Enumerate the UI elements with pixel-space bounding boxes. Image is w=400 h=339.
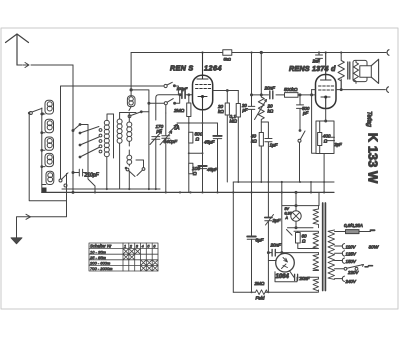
winding primary [328,230,335,279]
tap C125V [335,251,357,257]
PSU ground bus [233,291,317,293]
variable capacitor 540pF [160,113,178,192]
terminal c upper [387,50,389,56]
switch table [89,243,158,271]
wire gramophone line [312,89,386,91]
svg-text:pF: pF [156,128,164,133]
winding W1 [313,206,319,228]
earth plug arrow [26,214,31,219]
wire left feed y86 [61,86,165,179]
resistor 5kOhm in HT bus [223,50,232,62]
wire switch verticals mid [88,125,95,193]
output transformer core [348,62,350,79]
capacitor 1uF [265,139,279,183]
resistor 400 Ohm [318,121,331,154]
switch S6 grid upper [164,82,178,95]
svg-text:200 - 600m: 200 - 600m [89,261,111,266]
wire pot bottom link [261,122,268,138]
wire pot feed from bus [260,53,262,95]
svg-text:125V: 125V [346,252,357,257]
svg-text:Tefag: Tefag [366,111,373,127]
svg-text:5kΩ: 5kΩ [224,57,231,62]
coil L8 [117,113,122,190]
resistor 0.1MOhm [230,91,241,183]
capacitor 20nF psu upper [267,243,318,257]
wire lamp top row [282,182,319,254]
ground [11,238,22,244]
wire rectifier right [268,260,276,262]
tube U2 RENS 1374d [316,75,337,109]
switch S1 top-left [28,108,43,114]
resistor 500kOhm coupling [284,87,298,97]
rotary wafer blob [42,188,47,194]
tap C150V [335,258,357,264]
capacitor 45uF upper [204,123,222,192]
resistor 60 Ohm [294,231,318,248]
wire PSU left drop [232,182,234,292]
svg-text:0,6/0,25A: 0,6/0,25A [344,223,363,228]
svg-text:220V: 220V [347,270,359,275]
resistor 20kOhm screen [217,90,229,182]
speaker frame [353,60,367,81]
resistor 100 Ohm [189,163,201,177]
terminal c lower [387,87,389,93]
grid capacitor 100pF [177,87,188,99]
svg-text:10 - 35m: 10 - 35m [90,249,106,254]
capacitor 20nF coupling [264,86,277,99]
wire anode branch x311 [300,182,311,192]
svg-text:210pF: 210pF [84,173,100,179]
svg-text:45μF: 45μF [207,167,219,172]
svg-text:1: 1 [124,244,126,249]
coil L6 top small [127,53,135,111]
wire coil-bank rail [41,108,43,192]
svg-text:2MΩ: 2MΩ [254,281,265,286]
transformer core [323,203,326,291]
svg-text:0,35: 0,35 [285,212,292,216]
winding W4 [313,277,319,292]
svg-text:K 133 W: K 133 W [366,133,381,184]
switch S3 mid [128,111,149,118]
bus L1 (coil return) [62,188,160,190]
coil L2 [41,119,54,133]
winding W3 [313,253,319,271]
svg-text:30W: 30W [369,245,379,251]
coil L7 tuning tall [104,114,113,189]
capacitor 8uF [247,182,264,292]
tap C110V [335,244,357,250]
svg-text:100pF: 100pF [177,87,188,91]
svg-text:kΩ: kΩ [218,109,224,114]
wire cathode row [177,122,218,124]
svg-text:45μF: 45μF [204,140,216,145]
svg-text:2μF: 2μF [334,142,343,147]
antenna [6,34,29,65]
capacitor 210pF [73,169,100,178]
antenna plug connector [17,63,73,68]
svg-text:Ω: Ω [302,239,306,244]
svg-text:700 - 2000m: 700 - 2000m [90,266,113,271]
svg-text:20nF: 20nF [270,243,283,248]
switch S4 below L10 [125,167,135,189]
svg-text:1264: 1264 [204,64,222,73]
coil L5 [42,171,54,184]
wire grid line [156,95,193,120]
main ground bus [42,191,334,193]
switch S5 contact [136,160,145,176]
capacitor 20pF [241,53,255,183]
svg-text:1064: 1064 [276,274,290,280]
svg-text:kΩ: kΩ [251,139,257,144]
resistor 2MOhm [173,94,191,192]
capacitor 2uF cathode [328,137,343,147]
svg-text:pF: pF [242,108,248,113]
svg-text:pF: pF [302,111,308,116]
wire L6 tap to trimmer line [131,90,149,189]
svg-text:RENS 1374 d: RENS 1374 d [289,64,336,73]
svg-text:Schalter Nr: Schalter Nr [90,244,112,249]
coil L9 [127,113,132,147]
resistor 500 Ohm [189,132,203,144]
capacitor 500pF [297,94,310,130]
rectifier tube 1064 [276,253,295,272]
node TA tap [169,124,180,132]
cathode network box [316,109,334,154]
wire coil top link [120,112,136,114]
capacitor 20nF psu lower [289,271,318,281]
svg-text:2MΩ: 2MΩ [173,108,185,114]
svg-text:240V: 240V [345,279,357,284]
wire speaker top bus [340,79,342,90]
svg-text:1μF: 1μF [270,143,279,148]
wire coil core [113,114,115,158]
svg-text:110V: 110V [346,244,357,249]
coil L3 [41,137,54,151]
wire screen lead [213,90,239,92]
svg-text:2μF: 2μF [272,218,282,223]
coil L4 [41,153,54,167]
svg-text:540pF: 540pF [164,139,179,145]
svg-text:Ω: Ω [196,137,200,143]
svg-text:2nF: 2nF [312,58,321,63]
wire grid coupling row [252,94,285,96]
tap 240V [335,276,357,284]
switch S2 lower-left [59,173,68,187]
coil L1 [41,100,54,115]
wire 500/100 row [189,152,203,154]
svg-text:A: A [285,216,289,220]
tap 220V switch [335,265,373,276]
svg-text:kΩ: kΩ [268,109,274,114]
svg-text:MΩ: MΩ [230,119,238,124]
resistor 2MOhm Feld [254,281,268,301]
PSU bus dots [251,291,270,293]
resistor 40kOhm [251,133,263,183]
wire cathode to bus [323,154,325,193]
wire lamp bottom row [288,221,314,228]
svg-text:20nF: 20nF [299,276,310,281]
wire grid entry + cathode return [298,90,316,154]
svg-text:500kΩ: 500kΩ [284,87,298,92]
svg-text:Feld: Feld [256,296,265,301]
bus junction dots [94,181,325,194]
secondary bus y182 [233,181,334,183]
capacitor 2nF [312,53,323,64]
trimmer capacitor 170pF [150,124,164,189]
capacitor 2uF psu [265,182,282,292]
earth lead wire [17,174,67,240]
svg-text:150V: 150V [346,259,357,264]
svg-text:Ω: Ω [193,171,197,177]
wire cathode drop [202,110,204,192]
winding W2 [313,231,319,248]
svg-text:REN S: REN S [170,64,193,73]
fuse 0.6/0.25A [335,223,375,234]
bus2 dots [237,181,325,183]
coil L10 [127,150,132,166]
potentiometer 20kOhm zigzag [255,94,274,122]
speaker cone [371,59,378,83]
svg-text:25 - 85m: 25 - 85m [89,255,106,260]
capacitor 45uF lower [198,166,218,172]
wire left frame bottom [29,114,66,201]
HT top bus [131,52,386,54]
switch S9 psu [287,230,293,236]
wire antenna drop [72,65,74,192]
svg-text:8μF: 8μF [256,238,265,243]
field coil 2x zigzag [338,53,344,91]
switch S8 [298,130,305,182]
top bus dots [201,51,342,53]
svg-text:20nF: 20nF [264,86,277,91]
tube U1 RENS 1264 [193,75,213,110]
svg-text:5V: 5V [285,207,290,211]
switch S7 grid lower [148,95,180,113]
speaker voice coil zigzag [354,60,359,83]
speaker driver [360,66,372,78]
rotary switch contact field [73,124,102,158]
lamp 5V 0.35A [285,207,302,221]
